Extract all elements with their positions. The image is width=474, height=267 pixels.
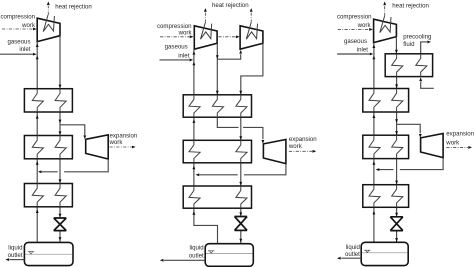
heat exchanger HX2c [363, 135, 409, 158]
svg-text:heat rejection: heat rejection [55, 4, 92, 11]
wire: compression work input dash-dot (c) [338, 28, 373, 31]
label: expansion work (b) [288, 136, 317, 150]
svg-text:work: work [288, 143, 303, 150]
wire: compression work dash-dot into K1b (b) [160, 35, 193, 38]
svg-text:gaseous: gaseous [344, 38, 367, 45]
label: liquid outlet (a) [8, 244, 23, 259]
wire: LP return line (b) with flow arrows [192, 49, 217, 244]
svg-text:heat rejection: heat rejection [212, 2, 249, 9]
compressor K1a [37, 15, 60, 42]
svg-text:outlet: outlet [8, 252, 23, 259]
expander X1c [421, 134, 444, 158]
expander X1b [263, 140, 286, 164]
svg-text:liquid: liquid [189, 245, 203, 252]
wire: liquid outlet (c) [337, 257, 361, 260]
svg-text:gaseous: gaseous [7, 39, 30, 46]
label: expansion work (a) [109, 132, 138, 146]
label: heat rejection (c) [392, 2, 429, 9]
svg-text:compression: compression [337, 14, 372, 21]
separator vessel S1b [205, 244, 253, 267]
svg-text:expansion: expansion [289, 136, 317, 143]
wire: LP return line (a) with flow arrows [36, 42, 39, 243]
heat exchanger HX2a [24, 136, 72, 159]
heat exchanger HX1b [183, 95, 251, 117]
svg-text:inlet: inlet [19, 46, 30, 53]
label: compression work (a) [0, 13, 35, 29]
wire: expander outlet (c) [376, 158, 444, 171]
wire: MP stream line from K1b (b) [216, 43, 219, 95]
wire: expansion work output dash-dot (c) [446, 146, 472, 149]
wire: expansion work output dash-dot (a) [110, 146, 136, 149]
heat exchanger HX3b [183, 186, 251, 208]
wire: heat rejection dash-dot arrow (a) [47, 1, 50, 15]
wire: gaseous inlet line (c) [337, 53, 373, 56]
wire: HP feed line (c) with flow arrows [395, 37, 398, 243]
wire: compression work input dash-dot (a) [2, 28, 37, 31]
svg-text:liquid: liquid [8, 244, 22, 251]
svg-text:heat rejection: heat rejection [392, 2, 429, 9]
svg-text:inlet: inlet [357, 47, 368, 54]
svg-text:work: work [109, 139, 124, 146]
wire: HP stream from K2b outlet (b) [239, 43, 263, 95]
wire: HP feed line through exchangers (b) [239, 117, 242, 244]
separator vessel S1c [361, 242, 408, 265]
separator vessel S1a [24, 242, 73, 265]
expander X1a [86, 135, 109, 159]
heat exchanger HX1a [24, 89, 72, 112]
label: gaseous inlet (c) [344, 38, 368, 54]
svg-text:work: work [357, 22, 372, 29]
compressor K1c [374, 16, 397, 43]
label: compression work (c) [337, 14, 372, 30]
label: gaseous inlet (b) [165, 44, 190, 60]
svg-text:gaseous: gaseous [165, 44, 188, 51]
svg-text:precooling: precooling [403, 33, 431, 40]
wire: LP return line (c) with flow arrows [372, 43, 375, 243]
wire: heat rejection dash-dot arrow from K1b [204, 8, 207, 23]
wire: precooling fluid supply (c) [419, 77, 434, 88]
compressor K1b [194, 23, 217, 50]
svg-text:work: work [21, 22, 36, 29]
wire: expander feed branch (a) [60, 125, 86, 139]
wire: heat rejection dash-dot arrow (c) [383, 1, 386, 16]
wire: expander outlet (b) [196, 164, 286, 177]
JT valve V1c [390, 217, 403, 231]
label: liquid outlet (b) [189, 245, 204, 260]
label: compression work (b) [157, 23, 192, 36]
wire: precooling fluid outlet (c) [421, 40, 431, 53]
wire: liquid outlet (b) [160, 259, 205, 262]
heat exchanger HX3a [24, 184, 72, 207]
wire: expander outlet (a) [38, 159, 108, 173]
wire: gaseous inlet line (a) [0, 53, 37, 56]
label: precooling fluid (c) [403, 33, 431, 48]
svg-text:fluid: fluid [403, 41, 414, 48]
wire: HP feed line (a) with flow arrows [59, 36, 62, 243]
label: liquid outlet (c) [345, 244, 360, 258]
svg-text:outlet: outlet [345, 251, 360, 258]
svg-text:liquid: liquid [346, 244, 360, 251]
wire: compression work dash-dot into K2b (b) [218, 35, 239, 38]
wire: liquid outlet (a) [5, 258, 24, 261]
svg-text:expansion: expansion [446, 131, 474, 138]
heat exchanger HX3c [363, 185, 409, 208]
JT valve V1a [54, 218, 67, 231]
JT valve V1b [235, 217, 248, 231]
svg-text:work: work [445, 140, 460, 147]
compressor K2b [240, 23, 263, 50]
wire: interstage link to K2b inlet (b) [217, 50, 242, 59]
precooling heat exchanger HX0c [385, 54, 432, 77]
wire: heat rejection dash-dot arrow from K2b [250, 8, 253, 23]
label: heat rejection (b) [212, 2, 249, 9]
label: gaseous inlet (a) [7, 39, 30, 53]
svg-text:compression: compression [0, 13, 35, 20]
wire: expansion work output dash-dot (b) [289, 150, 316, 153]
wire: expander feed branch (b) [217, 117, 264, 144]
svg-text:work: work [178, 30, 193, 37]
heat exchanger HX2b [183, 140, 251, 163]
wire: expander feed branch (c) [397, 124, 422, 137]
wire: gaseous inlet line (b) [160, 58, 194, 61]
svg-text:outlet: outlet [189, 252, 204, 259]
label: expansion work (c) [445, 131, 474, 147]
svg-text:inlet: inlet [178, 52, 189, 59]
heat exchanger HX1c [363, 89, 409, 113]
label: heat rejection (a) [55, 4, 92, 11]
